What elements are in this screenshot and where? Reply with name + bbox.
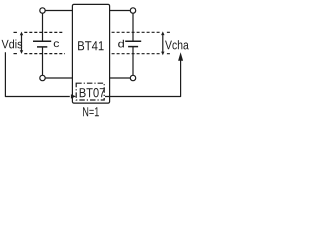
dashed measurement line right bottom [112,53,160,55]
arrowhead Vcha bottom [161,52,164,56]
wire right rail [105,59,181,97]
wire right battery bottom lead [132,47,134,76]
arrowhead up on right rail [178,52,183,61]
battery d plates [125,40,141,42]
wire left battery top lead [42,13,44,41]
node terminal bottom-right [130,75,135,80]
Vdis measure arrow (double headed) [21,35,23,52]
label c (nat 5.2 xs 1.18) [54,41,59,47]
wire left rail [5,52,69,96]
dashed measurement line left bottom [14,53,17,55]
node terminal bottom-left [40,75,45,80]
Vcha measure arrow (double headed) [162,34,164,52]
arrowhead Vcha top [161,31,164,35]
wire right battery top lead [132,13,134,41]
box BT07 (dash-dot enclosure) [76,83,104,100]
wire top-left [45,10,72,12]
wire lower-right [110,77,131,79]
battery c plates [33,40,51,42]
arrowhead into BT07 (bottom rail) [71,94,76,98]
arrowhead Vdis top [20,32,23,36]
arrowhead Vdis bottom [20,50,23,54]
label N=1 (nat 24.2 xs 0.70) [83,107,99,116]
label d (nat 5.8 xs 1.23) [118,40,124,48]
label BT07 (nat 31.3 xs 0.85) [80,88,105,97]
node terminal top-left [40,8,45,13]
box BT41 [72,4,109,103]
label Vcha (nat 28.7 xs 0.89) [165,40,189,49]
node terminal top-right [130,8,135,13]
wire top-right [110,10,131,12]
wire lower-left [45,77,72,79]
label BT41 (nat 31.5 xs 0.86) [78,41,104,50]
wire left battery bottom lead [42,47,44,75]
label Vdis (nat 23.7 xs 0.88) [2,39,23,48]
dashed measurement line right top [112,31,160,33]
dashed measurement line left top [14,31,17,33]
